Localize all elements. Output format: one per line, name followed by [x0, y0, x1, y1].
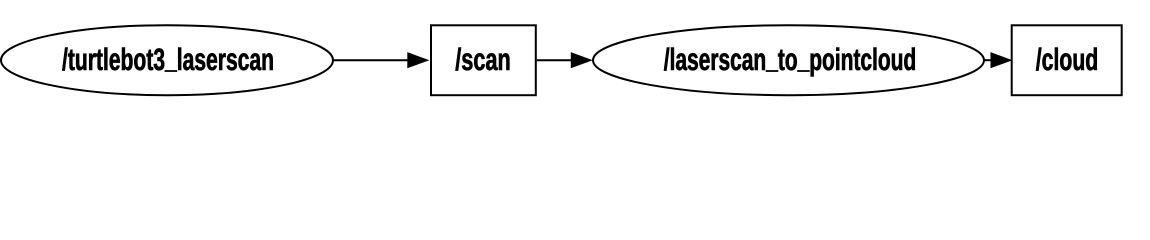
wire /laserscan_to_pointcloud to /cloud — [984, 59, 992, 61]
wire /turtlebot3_laserscan to /scan — [333, 59, 410, 61]
label /scan — [455, 48, 509, 71]
node ellipse /turtlebot3_laserscan — [1, 25, 333, 95]
wire /scan to /laserscan_to_pointcloud — [537, 59, 573, 61]
label /turtlebot3_laserscan — [62, 48, 272, 72]
node ellipse /laserscan_to_pointcloud — [593, 25, 984, 95]
label /cloud — [1036, 48, 1097, 71]
arrowhead into /scan — [408, 53, 428, 68]
topic box /cloud — [1012, 25, 1122, 95]
arrowhead into /laserscan_to_pointcloud — [571, 53, 591, 68]
topic box /scan — [431, 25, 536, 95]
arrowhead into /cloud — [991, 53, 1011, 68]
label /laserscan_to_pointcloud — [664, 48, 915, 77]
